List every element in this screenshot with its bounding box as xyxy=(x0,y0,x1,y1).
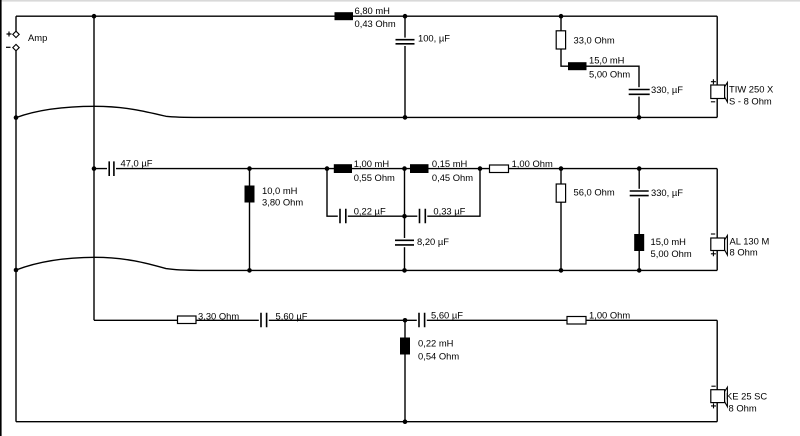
capacitor 8,20uF xyxy=(395,236,449,247)
wire right rail below KE speaker xyxy=(716,403,718,422)
inductor 15,0mH top xyxy=(568,54,630,79)
svg-text:330, µF: 330, µF xyxy=(651,187,683,198)
node bottom branch / 0,22mH xyxy=(403,318,408,323)
svg-text:TIW 250 X: TIW 250 X xyxy=(729,84,774,95)
amp terminal + xyxy=(7,31,20,37)
svg-text:8 Ohm: 8 Ohm xyxy=(729,403,757,414)
wire main vertical feeder xyxy=(93,16,95,320)
inductor 10,0mH xyxy=(245,185,304,208)
svg-text:0,55 Ohm: 0,55 Ohm xyxy=(354,172,395,183)
svg-text:0,22 mH: 0,22 mH xyxy=(418,338,453,349)
wire 33Ohm/15mH/330uF branch xyxy=(561,16,639,117)
svg-text:10,0 mH: 10,0 mH xyxy=(262,185,297,196)
svg-text:0,15 mH: 0,15 mH xyxy=(432,158,467,169)
wire right rail bottom section xyxy=(716,320,718,389)
node left rail / wavy1 xyxy=(14,115,19,120)
wire 56Ohm shunt branch xyxy=(560,169,562,271)
resistor 3,30 Ohm xyxy=(178,311,240,324)
wire mid column 8,20uF branch xyxy=(404,169,406,271)
node mid bottom rail / 15mH xyxy=(637,268,642,273)
node left rail / wavy2 xyxy=(14,268,19,273)
wire right rail below AL speaker xyxy=(716,251,718,271)
capacitor 330uF top xyxy=(629,84,684,97)
svg-text:S - 8 Ohm: S - 8 Ohm xyxy=(729,96,772,107)
node mid rail / 0,33uF xyxy=(478,166,483,171)
svg-text:0,22 µF: 0,22 µF xyxy=(354,206,386,217)
node mid rail / 56Ohm xyxy=(559,166,564,171)
node mid bottom rail / 10mH xyxy=(247,268,252,273)
svg-text:100, µF: 100, µF xyxy=(418,33,450,44)
amp terminal - xyxy=(6,44,19,50)
capacitor 0,22uF xyxy=(338,206,386,224)
svg-text:0,45 Ohm: 0,45 Ohm xyxy=(432,172,473,183)
svg-text:0,33 µF: 0,33 µF xyxy=(433,206,465,217)
resistor 1,00 Ohm mid xyxy=(490,158,553,173)
capacitor 5,60uF right xyxy=(417,310,463,328)
svg-text:6,80 mH: 6,80 mH xyxy=(355,5,390,16)
svg-text:8 Ohm: 8 Ohm xyxy=(730,247,758,258)
svg-text:330, µF: 330, µF xyxy=(651,84,683,95)
wire top-section bottom rail (wavy) xyxy=(16,106,717,117)
wire 100uF branch xyxy=(404,16,406,117)
wire right rail below TIW speaker xyxy=(716,99,718,118)
svg-text:1,00 Ohm: 1,00 Ohm xyxy=(589,310,630,321)
inductor 0,22mH xyxy=(400,338,459,362)
node bottom rail / 0,22mH xyxy=(403,419,408,424)
svg-text:5,00 Ohm: 5,00 Ohm xyxy=(651,248,692,259)
wire 0,22uF bypass loop xyxy=(327,169,480,217)
wire 330uF/15mH mid branch xyxy=(638,169,640,271)
resistor 1,00 Ohm bottom xyxy=(567,310,630,325)
node top rail / 33Ohm xyxy=(559,14,564,19)
node cap row / 8,20uF xyxy=(402,214,407,219)
resistor 33,0 Ohm xyxy=(556,31,615,49)
wire bottom rail xyxy=(16,421,717,423)
svg-text:5,00 Ohm: 5,00 Ohm xyxy=(589,69,630,80)
node bottom rail top-section / 100uF xyxy=(403,115,408,120)
wire left rail upper xyxy=(15,16,17,31)
svg-text:15,0 mH: 15,0 mH xyxy=(589,54,624,65)
inductor 1,00mH xyxy=(334,158,395,183)
speaker KE 25 SC xyxy=(711,386,768,413)
svg-text:5,60 µF: 5,60 µF xyxy=(276,311,308,322)
svg-text:Amp: Amp xyxy=(28,32,47,43)
svg-text:5,60 µF: 5,60 µF xyxy=(431,310,463,321)
inductor 6,80mH xyxy=(335,5,396,29)
capacitor 5,60uF left xyxy=(259,311,308,328)
wire right rail top section xyxy=(716,16,718,85)
node mid rail / 0,22uF xyxy=(325,166,330,171)
node mid rail / feeder xyxy=(92,166,97,171)
wire bottom branch horizontal xyxy=(94,319,717,321)
resistor 56,0 Ohm xyxy=(556,184,615,202)
capacitor 0,33uF xyxy=(417,206,465,224)
node mid rail / 330uF xyxy=(637,166,642,171)
svg-text:AL 130 M: AL 130 M xyxy=(730,235,770,246)
capacitor 330uF mid xyxy=(630,187,684,198)
svg-text:1,00 Ohm: 1,00 Ohm xyxy=(512,158,553,169)
svg-text:0,43 Ohm: 0,43 Ohm xyxy=(355,18,396,29)
node bottom rail top-section / 330uF xyxy=(637,115,642,120)
svg-text:56,0 Ohm: 56,0 Ohm xyxy=(574,187,615,198)
svg-text:47,0 µF: 47,0 µF xyxy=(121,158,153,169)
node mid rail / centre column xyxy=(402,166,407,171)
speaker AL 130 M xyxy=(711,234,770,258)
wire top rail xyxy=(16,15,717,17)
node mid rail / 10mH xyxy=(247,166,252,171)
wire 10mH shunt branch xyxy=(249,169,251,271)
wire mid-section top rail xyxy=(94,168,717,170)
inductor 15,0mH mid xyxy=(634,234,692,259)
node top rail / feeder xyxy=(92,14,97,19)
node mid bottom rail / 8,20uF xyxy=(402,268,407,273)
svg-text:3,80 Ohm: 3,80 Ohm xyxy=(262,197,303,208)
wire 0,22mH shunt branch xyxy=(404,320,406,421)
svg-text:8,20 µF: 8,20 µF xyxy=(417,236,449,247)
svg-text:0,54 Ohm: 0,54 Ohm xyxy=(418,351,459,362)
svg-text:33,0 Ohm: 33,0 Ohm xyxy=(574,35,615,46)
speaker TIW 250 X xyxy=(711,79,774,106)
wire mid-section bottom rail (wavy) xyxy=(16,257,717,270)
inductor 0,15mH xyxy=(410,158,473,183)
node top rail / 100uF xyxy=(403,14,408,19)
svg-text:KE 25 SC: KE 25 SC xyxy=(726,391,767,402)
capacitor 47,0uF xyxy=(107,158,153,177)
svg-text:15,0 mH: 15,0 mH xyxy=(651,236,686,247)
node mid bottom rail / 56Ohm xyxy=(559,268,564,273)
wire right rail mid section xyxy=(716,169,718,238)
svg-text:3,30 Ohm: 3,30 Ohm xyxy=(198,311,239,322)
capacitor 100uF xyxy=(396,33,451,47)
wire left rail lower xyxy=(15,51,17,422)
svg-text:1,00 mH: 1,00 mH xyxy=(354,158,389,169)
